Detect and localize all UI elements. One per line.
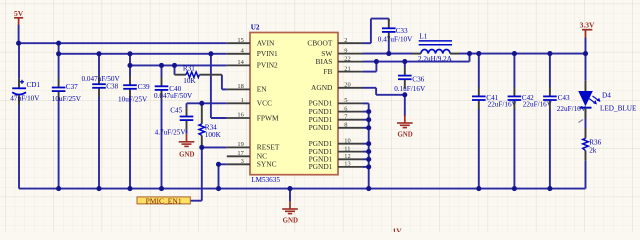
capacitor C33: [378, 19, 413, 54]
junction at 376.4,61.6: [374, 59, 379, 64]
wire GND bus bottom: [19, 188, 586, 190]
pin 6 PGND1: [309, 105, 363, 116]
pin 20 AGND: [311, 82, 363, 93]
svg-text:AVIN: AVIN: [257, 39, 275, 48]
ground below IC: [289, 189, 291, 201]
junction at 469.5,53.6: [467, 51, 472, 56]
junction at 404.8,94.8: [402, 92, 407, 97]
svg-text:PVIN1: PVIN1: [257, 49, 278, 58]
svg-text:C33: C33: [396, 27, 408, 35]
pin 8 PGND1: [309, 122, 363, 133]
junction at 549.9,53.6: [547, 51, 552, 56]
wire bus2 y=53.8: [58, 43, 60, 54]
svg-text:PMIC_EN1: PMIC_EN1: [146, 197, 183, 205]
svg-text:L1: L1: [419, 33, 427, 41]
resistor R34: [199, 103, 222, 147]
junction at 58.6,53.8: [56, 51, 61, 56]
junction at 161.5,188.6: [159, 186, 164, 191]
pin 15 AVIN: [227, 37, 275, 48]
capacitor CD1 (polarized): [10, 43, 40, 105]
pin 11 PGND1: [309, 145, 363, 156]
junction at 99,188.6: [96, 186, 101, 191]
svg-text:18: 18: [237, 83, 243, 90]
svg-text:16: 16: [237, 112, 243, 119]
ground under C45: [186, 130, 188, 134]
svg-text:10uF/25V: 10uF/25V: [118, 96, 148, 104]
junction at 514.4,188.6: [512, 186, 517, 191]
svg-text:22uF/16V: 22uF/16V: [488, 101, 518, 109]
svg-text:1V: 1V: [393, 227, 403, 232]
junction at 368.7,127.8: [366, 125, 371, 130]
svg-text:RESET: RESET: [257, 143, 280, 152]
junction at 210.9,53.8: [208, 51, 213, 56]
svg-text:8: 8: [344, 122, 347, 129]
svg-text:6: 6: [344, 105, 347, 112]
svg-text:2: 2: [344, 37, 347, 44]
pin 21 FB: [323, 65, 363, 76]
junction at 130,188.6: [127, 186, 132, 191]
capacitor C40: [154, 65, 193, 188]
svg-text:R31: R31: [183, 65, 195, 73]
pin 9 SW: [321, 47, 363, 58]
wire 5V rail bus1 y=43.2: [19, 42, 227, 44]
pin 7 PGND1: [309, 113, 363, 124]
wire bus3 y=65.4: [129, 54, 131, 66]
svg-text:LM53635: LM53635: [251, 176, 280, 184]
svg-text:U2: U2: [251, 24, 260, 32]
resistor R31: [175, 65, 222, 85]
junction at 514.4,53.6: [512, 51, 517, 56]
svg-text:20: 20: [344, 82, 350, 89]
svg-text:10uF/25V: 10uF/25V: [52, 95, 82, 103]
svg-text:R36: R36: [589, 138, 601, 146]
junction at 478.8,53.6: [476, 51, 481, 56]
power port 3.3V: [580, 21, 595, 38]
svg-text:47uF/10V: 47uF/10V: [10, 95, 40, 103]
svg-text:AGND: AGND: [311, 83, 333, 92]
svg-text:D4: D4: [602, 91, 611, 99]
svg-text:15: 15: [237, 37, 243, 44]
junction at 549.9,188.6: [547, 186, 552, 191]
pin 4 PVIN1: [227, 48, 278, 59]
svg-text:13: 13: [344, 161, 350, 168]
pin 19 RESET: [227, 141, 280, 152]
svg-text:0.47uF/10V: 0.47uF/10V: [378, 36, 413, 44]
svg-text:2.2uH/9.2A: 2.2uH/9.2A: [418, 55, 453, 63]
pin 5 PGND1: [309, 97, 363, 108]
junction at 99,53.8: [96, 51, 101, 56]
svg-text:PGND1: PGND1: [309, 162, 333, 171]
wire L1 to 3.3V bus: [459, 53, 586, 55]
svg-text:C37: C37: [66, 83, 78, 91]
junction at 368.7,143.7: [366, 141, 371, 146]
wire SYNC ground: [219, 163, 227, 165]
pin 16 FPWM: [227, 112, 279, 123]
svg-text:VCC: VCC: [257, 99, 272, 108]
wire 5V drop: [18, 25, 20, 44]
pin 12 PGND1: [309, 153, 363, 164]
svg-text:100K: 100K: [205, 131, 222, 139]
junction at 368.7,119.7: [366, 117, 371, 122]
resistor R36: [583, 128, 602, 161]
pin 2 CBOOT: [307, 37, 363, 48]
svg-text:GND: GND: [397, 132, 412, 139]
svg-text:EN: EN: [257, 85, 268, 94]
svg-text:1: 1: [241, 97, 244, 104]
svg-text:5V: 5V: [14, 9, 24, 18]
junction at 130,53.8: [127, 51, 132, 56]
junction at 404.8,61.6: [402, 59, 407, 64]
wire CBOOT jog: [363, 42, 371, 44]
svg-text:19: 19: [237, 141, 243, 148]
svg-text:FB: FB: [323, 67, 332, 76]
capacitor C43: [543, 54, 587, 189]
svg-text:BIAS: BIAS: [316, 57, 333, 66]
junction at 368.7,188.6: [366, 186, 371, 191]
capacitor C42: [508, 54, 553, 189]
junction at 368.7,111.6: [366, 109, 371, 114]
capacitor C39: [118, 65, 150, 188]
svg-text:GND: GND: [179, 151, 194, 158]
pin 17 NC: [227, 150, 267, 161]
ground under C36: [397, 115, 413, 139]
svg-text:CBOOT: CBOOT: [307, 39, 333, 48]
junction at 201.8,103.3: [199, 101, 204, 106]
capacitor C41: [472, 54, 518, 189]
svg-text:0.047uF/50V: 0.047uF/50V: [154, 92, 193, 100]
junction at 161.5,65.4: [159, 63, 164, 68]
junction at 368.7,151.6: [366, 149, 371, 154]
power port 5V: [14, 9, 24, 25]
pin 22 BIAS: [316, 55, 363, 66]
svg-text:FPWM: FPWM: [257, 113, 279, 122]
capacitor C36: [394, 66, 426, 93]
svg-text:CD1: CD1: [27, 81, 41, 89]
svg-text:4.7uF/25V: 4.7uF/25V: [155, 128, 187, 136]
wire RESET: [202, 146, 227, 148]
svg-text:PGND1: PGND1: [309, 123, 333, 132]
pin 1 VCC: [227, 97, 272, 108]
svg-text:9: 9: [344, 47, 347, 54]
junction at 218.5,164.3: [216, 162, 221, 167]
svg-text:C38: C38: [106, 82, 118, 90]
svg-text:C43: C43: [558, 94, 570, 102]
wire SW to L1: [363, 53, 412, 55]
svg-text:C45: C45: [170, 106, 182, 114]
svg-text:22uF/16V: 22uF/16V: [523, 101, 553, 109]
junction at 218.5,188.6: [216, 186, 221, 191]
junction at 58.6,188.6: [56, 186, 61, 191]
wire 3.3V drop and LED branch: [585, 38, 587, 54]
svg-text:C36: C36: [412, 75, 424, 83]
junction at 368.7,159.3: [366, 157, 371, 162]
LED D4: [578, 81, 637, 119]
svg-text:17: 17: [237, 150, 244, 157]
wire VCC: [187, 102, 227, 104]
junction at 174.5,65.4: [172, 63, 177, 68]
svg-text:SYNC: SYNC: [257, 160, 277, 169]
svg-text:10K: 10K: [183, 77, 196, 85]
svg-text:3: 3: [241, 158, 244, 165]
junction at 368.7,166.9: [366, 164, 371, 169]
pin 3 SYNC: [227, 158, 277, 169]
junction at 18.6,43.2: [16, 41, 21, 46]
net port PMIC_EN1: [137, 197, 190, 205]
svg-text:10: 10: [344, 137, 350, 144]
no-ERC tick: [579, 120, 584, 123]
capacitor C37: [52, 54, 82, 189]
junction at 388.8,53.6: [386, 51, 391, 56]
wire BIAS/FB node: [363, 61, 470, 63]
svg-text:22: 22: [344, 55, 350, 62]
wire PGND collector: [363, 102, 369, 104]
svg-text:3.3V: 3.3V: [580, 21, 595, 30]
svg-text:LED_BLUE: LED_BLUE: [600, 105, 637, 113]
svg-text:2k: 2k: [589, 146, 597, 154]
capacitor C38: [82, 54, 121, 189]
svg-text:21: 21: [344, 65, 350, 72]
pin 18 EN: [227, 83, 268, 94]
svg-text:14: 14: [237, 59, 244, 66]
wire PMIC_EN1 to RESET: [201, 147, 203, 200]
junction at 478.8,188.6: [476, 186, 481, 191]
svg-text:12: 12: [344, 153, 350, 160]
svg-text:C39: C39: [138, 83, 150, 91]
junction at 585.5,53.6: [583, 51, 588, 56]
svg-text:PVIN2: PVIN2: [257, 61, 278, 70]
inductor L1: [412, 33, 459, 64]
svg-text:GND: GND: [283, 218, 298, 225]
svg-text:1V8: 1V8: [611, 230, 624, 232]
svg-text:11: 11: [344, 145, 350, 152]
wire AGND: [363, 87, 376, 89]
pin 10 PGND1: [309, 137, 363, 148]
capacitor C45: [155, 106, 194, 136]
junction at 201.8,147.4: [199, 145, 204, 150]
svg-text:22uF/16V: 22uF/16V: [557, 105, 587, 113]
junction at 58.6,43.2: [56, 41, 61, 46]
svg-text:0.047uF/50V: 0.047uF/50V: [82, 75, 121, 83]
junction at 290,188.6: [287, 186, 292, 191]
svg-text:5: 5: [344, 97, 347, 104]
pin 14 PVIN2: [227, 59, 278, 70]
wire EN link: [174, 65, 176, 74]
op IC U2 LM53635 body: [250, 33, 338, 175]
junction at 130,65.4: [127, 63, 132, 68]
svg-text:0.1uF/16V: 0.1uF/16V: [394, 85, 426, 93]
wire FPWM feed: [210, 54, 212, 118]
pin 13 PGND1: [309, 161, 363, 172]
